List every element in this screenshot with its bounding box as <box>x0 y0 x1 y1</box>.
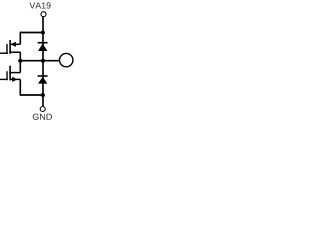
diode D1: anode triangle (apex up) <box>38 44 47 52</box>
diode D2: anode triangle (apex up) <box>38 77 47 84</box>
wire: top horizontal (M1 source to bus) <box>20 32 43 34</box>
transistor M1 PMOS: drain foot line <box>9 51 20 53</box>
transistor M1 PMOS: source arrowhead (points into channel) <box>11 42 16 47</box>
port pin VA19 (open circle terminal) <box>41 12 46 17</box>
transistor M2 NMOS: drain vertical lead from mid node <box>19 61 21 73</box>
wire: mid horizontal (mid node to pad) <box>20 60 60 62</box>
transistor M2 NMOS: gate bar <box>6 71 8 80</box>
transistor M2 NMOS: drain line <box>9 72 20 74</box>
net label GND <box>33 114 52 120</box>
port pin GND (open circle terminal) <box>40 107 45 112</box>
junction: bus / top wire <box>41 31 45 35</box>
wire: VA19 bus vertical (port to GND port) <box>42 17 44 106</box>
transistor M2 NMOS: source vertical lead to bottom wire <box>19 79 21 95</box>
transistor M1 PMOS: source line with arrow <box>11 43 21 45</box>
transistor M1 PMOS: channel bar <box>9 40 11 54</box>
junction: bus / bottom wire <box>41 93 45 97</box>
transistor M2 NMOS: channel bar <box>9 66 11 81</box>
transistor M1 PMOS: gate lead wire <box>0 52 8 54</box>
transistor M1 PMOS: source vertical lead to top wire <box>19 33 21 45</box>
transistor M2 NMOS: source line <box>11 78 21 80</box>
transistor M2 NMOS: source arrowhead (points away from channel) <box>12 77 17 82</box>
transistor M2 NMOS: gate lead wire <box>0 78 8 80</box>
transistor M1 PMOS: gate bar <box>6 44 8 54</box>
wire: bottom horizontal (M2 source to bus) <box>20 94 43 96</box>
junction: M1 drain / M2 drain / mid wire <box>18 59 22 63</box>
transistor M1 PMOS: drain vertical lead down to mid node <box>19 52 21 61</box>
pad circle (I/O pin) <box>59 53 72 66</box>
diode D1 (mid node to VA19): cathode bar <box>38 42 48 44</box>
diode D2 (GND to mid node): cathode bar <box>38 75 48 77</box>
net label VA19 <box>29 2 50 8</box>
junction: bus / mid wire <box>41 59 45 63</box>
